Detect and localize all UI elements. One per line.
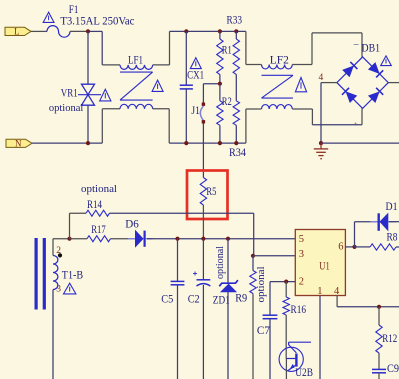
svg-text:R12: R12	[382, 333, 397, 345]
svg-text:D6: D6	[125, 218, 139, 230]
svg-text:R1: R1	[222, 45, 232, 57]
label optional	[81, 183, 117, 195]
wire	[227, 239, 229, 283]
label U2B	[295, 367, 313, 379]
label R1	[222, 45, 232, 57]
polarity dot	[58, 253, 62, 257]
label C2	[188, 294, 200, 306]
svg-text:C2: C2	[188, 294, 200, 306]
label optional	[215, 246, 226, 279]
junction	[86, 29, 90, 33]
wire	[227, 292, 229, 379]
resistor R9	[250, 256, 256, 294]
svg-text:R2: R2	[222, 96, 232, 108]
wire	[147, 238, 295, 240]
svg-text:F1: F1	[69, 4, 79, 16]
svg-text:6: 6	[338, 242, 343, 253]
wire	[102, 64, 120, 66]
resistor R33	[233, 31, 239, 74]
label R9	[235, 292, 247, 304]
resistor R2	[217, 84, 223, 143]
wire	[355, 246, 371, 248]
svg-text:C9: C9	[387, 363, 399, 375]
wire	[32, 142, 102, 144]
svg-text:J1: J1	[191, 105, 200, 117]
wire	[337, 296, 399, 307]
wire	[87, 105, 89, 143]
label D6	[125, 218, 139, 230]
wire	[378, 353, 380, 369]
junction	[184, 141, 188, 145]
wire	[253, 213, 255, 256]
warning symbol	[64, 283, 76, 294]
label ZD1	[213, 295, 230, 307]
inductor LF1 bottom winding	[120, 104, 153, 108]
wire	[269, 319, 271, 379]
svg-text:optional: optional	[256, 266, 267, 302]
wire	[292, 33, 362, 65]
core symbol LF2	[262, 75, 294, 98]
pin label	[354, 121, 358, 128]
junction	[218, 29, 222, 33]
label C9	[387, 363, 399, 375]
highlight box	[187, 171, 228, 220]
label R14	[87, 199, 102, 211]
junction	[86, 141, 90, 145]
junction	[218, 82, 222, 86]
label DB1	[362, 42, 381, 54]
svg-text:4: 4	[319, 73, 324, 83]
inductor LF2 bottom winding	[262, 105, 293, 109]
svg-text:2: 2	[56, 246, 61, 256]
wire	[102, 109, 120, 143]
svg-text:R14: R14	[87, 199, 102, 211]
wire	[202, 124, 204, 178]
wire	[253, 255, 295, 257]
diode D1	[370, 213, 396, 231]
junction	[175, 237, 179, 241]
resistor R34	[233, 75, 239, 144]
wire	[355, 222, 378, 247]
warning symbol	[100, 89, 111, 101]
svg-text:optional: optional	[49, 102, 83, 114]
svg-text:R17: R17	[91, 224, 106, 236]
label R8	[387, 232, 398, 244]
wire	[177, 285, 179, 379]
svg-text:–: –	[353, 40, 359, 50]
warning symbol	[152, 80, 163, 91]
port L	[5, 27, 31, 37]
svg-text:5: 5	[299, 234, 304, 245]
transistor U2B	[279, 342, 311, 379]
wire	[285, 315, 287, 359]
svg-text:DB1: DB1	[362, 42, 381, 54]
svg-text:R34: R34	[229, 147, 246, 159]
svg-text:LF1: LF1	[128, 55, 143, 67]
wire	[111, 238, 135, 240]
wire	[169, 142, 246, 144]
wire	[70, 30, 88, 32]
svg-text:4: 4	[334, 286, 340, 297]
inductor LF2 top winding	[262, 65, 293, 69]
warning symbol	[295, 78, 306, 92]
transformer T1-B core	[35, 238, 46, 310]
wire	[270, 282, 295, 316]
jumper J1	[200, 103, 205, 124]
svg-text:3: 3	[299, 249, 304, 260]
svg-text:3: 3	[56, 284, 61, 294]
svg-text:+: +	[354, 121, 358, 128]
wire	[389, 221, 399, 223]
value label	[60, 16, 134, 28]
wire	[246, 109, 262, 143]
wire	[185, 31, 187, 85]
wire	[202, 285, 204, 379]
label optional	[49, 102, 83, 114]
svg-text:R5: R5	[206, 186, 216, 198]
wire	[321, 83, 337, 144]
wire	[88, 31, 102, 65]
fuse F1	[47, 26, 70, 38]
capacitor CX1	[180, 85, 193, 89]
wire	[361, 108, 363, 124]
wire	[319, 296, 321, 379]
label R5	[206, 186, 216, 198]
varistor VR1	[78, 84, 101, 105]
wire	[177, 239, 179, 282]
resistor R17	[70, 236, 111, 242]
label R12	[382, 333, 397, 345]
junction	[352, 245, 356, 249]
inductor LF1 top winding	[120, 65, 153, 69]
svg-text:R9: R9	[235, 292, 247, 304]
wire	[153, 31, 170, 65]
svg-text:R33: R33	[227, 14, 243, 26]
resistor R14	[86, 210, 110, 216]
label F1	[69, 4, 79, 16]
core symbol LF1	[120, 72, 153, 100]
diode D6	[128, 231, 153, 247]
svg-text:C5: C5	[161, 294, 173, 306]
junction	[251, 254, 255, 258]
wire	[378, 373, 380, 379]
svg-text:ZD1: ZD1	[213, 295, 230, 307]
svg-text:N: N	[15, 139, 22, 149]
label CX1	[187, 70, 204, 82]
svg-text:VR1: VR1	[61, 88, 78, 100]
label LF1	[128, 55, 143, 67]
label T1-B	[62, 270, 83, 282]
svg-text:C7: C7	[257, 325, 270, 337]
pin 2 label	[56, 246, 61, 256]
wire	[87, 31, 89, 84]
warning symbol	[381, 56, 392, 66]
wire	[246, 31, 262, 64]
wire	[53, 239, 70, 256]
svg-text:R8: R8	[387, 232, 398, 244]
wire	[312, 124, 362, 126]
wire	[170, 30, 246, 32]
resistor R16	[283, 282, 289, 315]
label minus	[353, 40, 359, 50]
pin 3 label	[56, 284, 61, 294]
svg-text:1: 1	[317, 286, 322, 297]
label R17	[91, 224, 106, 236]
wire	[202, 239, 204, 280]
junction	[67, 237, 71, 241]
wire	[185, 89, 187, 143]
svg-text:2: 2	[299, 276, 304, 287]
label D1	[386, 201, 398, 213]
label C5	[161, 294, 173, 306]
resistor R8	[370, 244, 399, 250]
wire	[388, 82, 399, 84]
label optional	[256, 266, 267, 302]
junction	[234, 29, 238, 33]
wire	[153, 109, 170, 143]
ground	[314, 143, 328, 159]
wire	[321, 142, 399, 144]
warning symbol	[43, 12, 54, 22]
junction	[284, 280, 288, 284]
capacitor C5	[171, 281, 185, 284]
capacitor C7	[263, 315, 278, 319]
svg-text:LF2: LF2	[270, 54, 289, 66]
wire	[203, 84, 220, 105]
svg-text:T3.15AL 250Vac: T3.15AL 250Vac	[60, 16, 134, 28]
bridge rectifier DB1	[337, 57, 388, 109]
resistor R5	[200, 178, 206, 239]
pin 4 label	[319, 73, 324, 83]
svg-text:T1-B: T1-B	[62, 270, 83, 282]
label LF2	[270, 54, 289, 66]
label R2	[222, 96, 232, 108]
junction	[234, 141, 238, 145]
svg-text:D1: D1	[386, 201, 398, 213]
wire	[345, 246, 354, 248]
svg-text:U1: U1	[319, 259, 330, 273]
junction	[377, 305, 381, 309]
capacitor C2	[193, 272, 210, 287]
junction	[218, 141, 222, 145]
svg-text:optional: optional	[215, 246, 226, 279]
wire	[292, 109, 312, 125]
transformer T1-B winding	[53, 256, 58, 290]
label R16	[291, 304, 307, 316]
wire	[252, 294, 254, 379]
wire	[31, 30, 47, 32]
resistor R1	[217, 31, 223, 83]
capacitor C9	[372, 369, 386, 372]
zener diode ZD1	[219, 280, 238, 292]
svg-text:optional: optional	[81, 183, 117, 195]
op-amp U1	[295, 230, 345, 297]
junction	[226, 237, 230, 241]
label R33	[227, 14, 243, 26]
resistor R12	[376, 307, 382, 353]
svg-text:U2B: U2B	[295, 367, 313, 379]
port N	[6, 139, 32, 149]
junction	[184, 29, 188, 33]
label R34	[229, 147, 246, 159]
svg-text:R16: R16	[291, 304, 307, 316]
svg-text:CX1: CX1	[187, 70, 204, 82]
wire	[110, 212, 254, 214]
label J1	[191, 105, 200, 117]
junction	[201, 237, 205, 241]
svg-text:L: L	[14, 27, 20, 37]
wire	[70, 213, 87, 239]
junction	[319, 141, 323, 145]
warning symbol	[190, 58, 201, 69]
label C7	[257, 325, 270, 337]
label VR1	[61, 88, 78, 100]
wire	[52, 290, 54, 379]
